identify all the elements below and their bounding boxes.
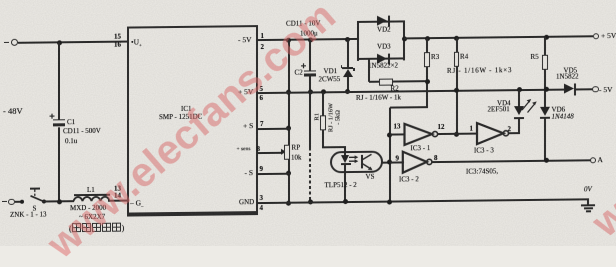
capacitor C1 plus mark: [50, 114, 55, 119]
wire L1 to IC: [108, 200, 128, 202]
node: [308, 37, 313, 42]
opto LED emission arrows: [349, 155, 358, 163]
opto output stub: [382, 161, 390, 163]
node vertical x389.5: [389, 107, 391, 202]
inverter IC3-3 wires: [508, 132, 520, 134]
resistor R3: [425, 36, 430, 41]
wire top rail left: [18, 41, 128, 44]
resistor R1: [321, 89, 326, 94]
capacitor C2 labels: [286, 20, 320, 28]
LED VD4 2EF501: [517, 87, 522, 92]
inverter IC3-2 wires: [390, 161, 404, 163]
input terminal (bottom): [8, 199, 14, 205]
IC right side labels/pins: [238, 36, 252, 44]
watermark corner: [583, 129, 616, 246]
wire rail A (pins 1/2 to diode pair): [257, 38, 359, 41]
node: [286, 37, 291, 42]
inductor L1 core: [74, 194, 111, 197]
wire vertical x289 (rail A to GND): [288, 40, 290, 204]
inductor L1 humps: [74, 197, 110, 202]
ground symbol 0V: [587, 198, 589, 205]
capacitor C2 plus mark: [301, 63, 306, 68]
resistor R2: [368, 59, 370, 82]
wire pin9: [257, 172, 290, 174]
capacitor C1: [58, 42, 60, 120]
LED VD4 emission arrows: [522, 99, 537, 113]
opto phototransistor: [362, 154, 373, 170]
node C1 bottom: [57, 199, 62, 204]
diode VD3: [377, 53, 387, 63]
diode VD2: [377, 16, 387, 26]
potentiometer RP 10k: [257, 151, 282, 153]
IC1 SMP-1251DC body: [127, 25, 258, 217]
label -48V: [3, 106, 23, 115]
switch S lever: [31, 196, 45, 202]
inverter IC3-1 wires: [390, 133, 405, 135]
resistor R4: [454, 35, 459, 40]
pin 13/14: [114, 186, 121, 193]
GND rail (pins 3/4): [257, 198, 589, 204]
watermark www.elecfans.com: [38, 0, 345, 267]
diode VD6 1N4148 + R5 chain: [544, 34, 549, 39]
R1 jog into opto: [322, 146, 346, 148]
-5V terminal: [592, 86, 598, 92]
A terminal: [590, 157, 596, 163]
link node to R3: [390, 106, 429, 108]
node C1 top: [57, 40, 62, 45]
optocoupler VS TLP512-2: [330, 150, 384, 173]
input terminal (-48V, top): [11, 39, 18, 46]
diode pair VD2/VD3 rectangle: [357, 20, 359, 60]
capacitor C2: [309, 39, 311, 71]
diode VD5 1N5822: [564, 84, 574, 94]
switch S actuator stem: [34, 190, 36, 197]
+5V terminal: [593, 33, 600, 40]
wire bottom-left: [15, 201, 23, 203]
op-amp / inverter IC3-2: [403, 151, 432, 172]
pin 15/16: [114, 33, 121, 40]
zener VD1 2CW55: [345, 37, 350, 42]
wire pin7: [257, 127, 290, 129]
op-amp / inverter IC3-1: [405, 124, 438, 145]
wire rail B (pins 5/6 to VD5): [257, 88, 564, 93]
op-amp / inverter IC3-3: [477, 123, 509, 144]
switch S: [20, 200, 24, 204]
wire rail A right: [404, 35, 593, 39]
